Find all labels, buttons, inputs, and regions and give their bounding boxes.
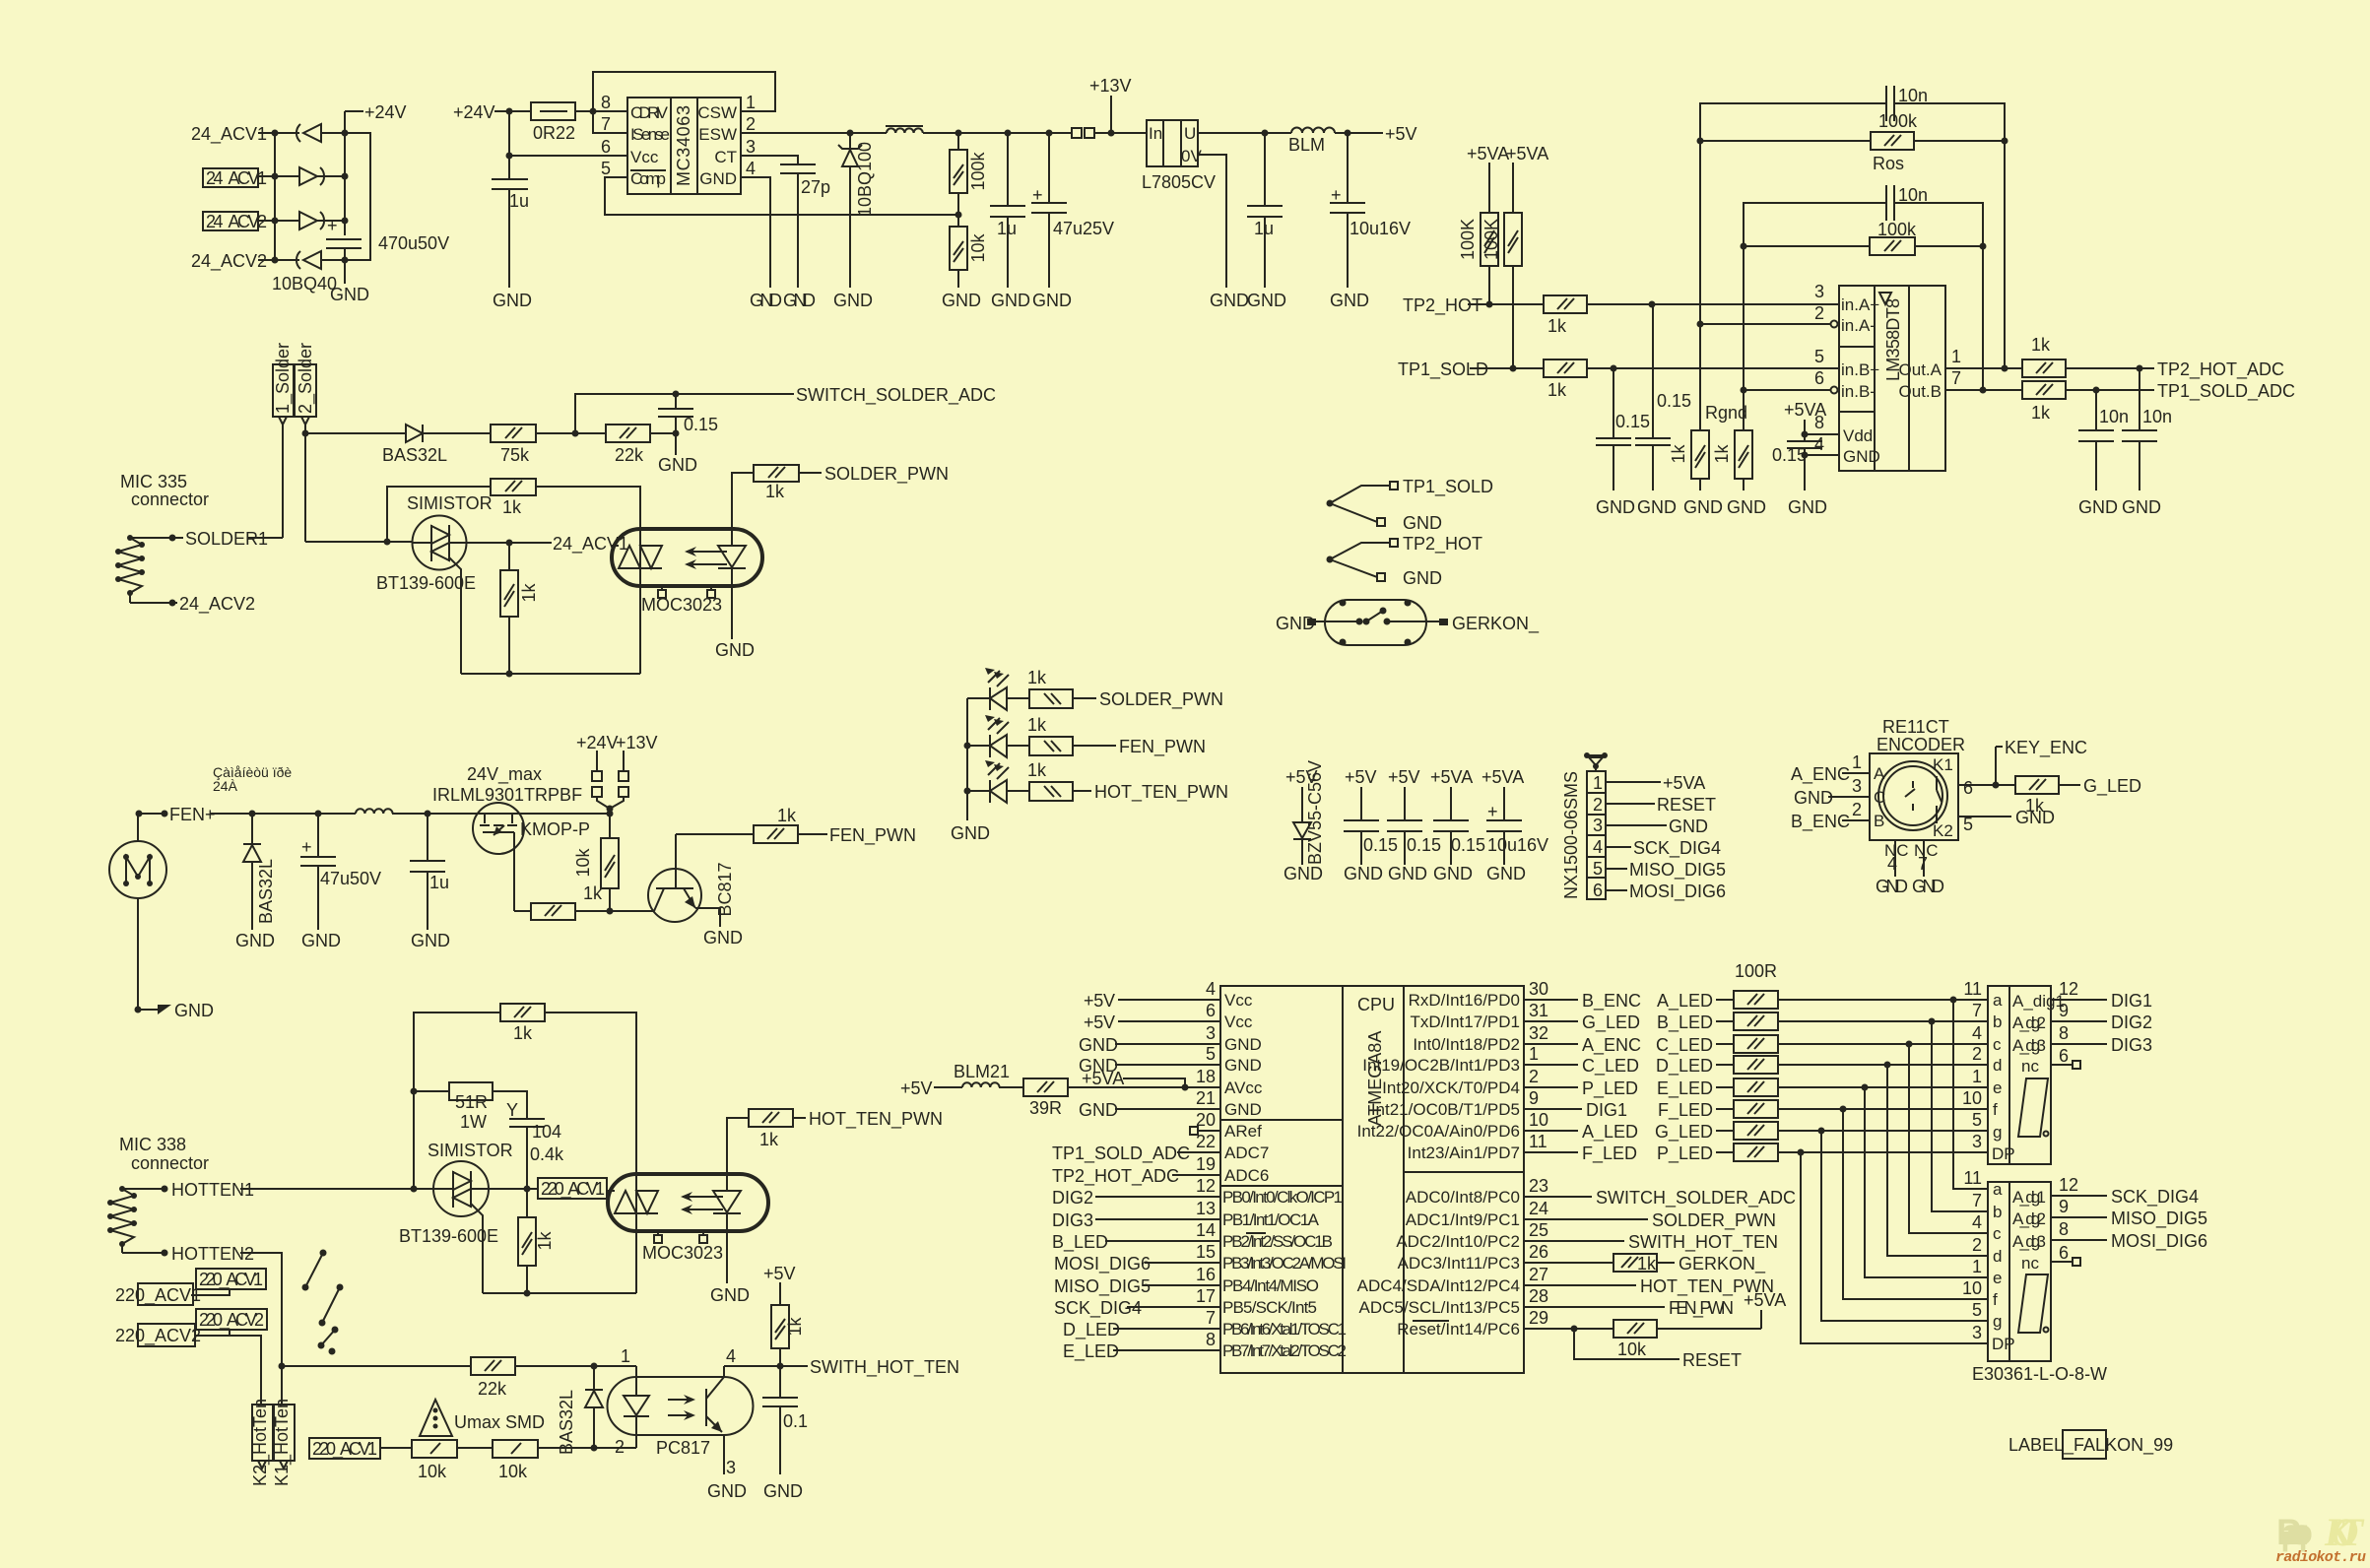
connector marker triangle [1584,752,1608,771]
svg-text:Out.A: Out.A [1899,360,1942,379]
svg-text:PB2/Int2/SS/OC1B: PB2/Int2/SS/OC1B [1222,1232,1333,1251]
svg-text:4: 4 [726,1346,736,1366]
svg-text:+5V: +5V [900,1078,933,1098]
svg-text:GND: GND [1486,864,1526,883]
svg-text:2: 2 [1972,1044,1982,1064]
svg-text:K2: K2 [1933,821,1953,840]
svg-text:4: 4 [1206,979,1216,999]
capacitor 0.15 at in.B+ [1596,368,1650,517]
ground GND motor [135,898,215,1020]
display DSP1 digit pins [2012,979,2152,1011]
svg-text:0.15: 0.15 [1363,835,1398,855]
svg-text:КОТ: КОТ [2324,1510,2365,1554]
svg-text:GND: GND [2122,497,2161,517]
svg-text:+13V: +13V [616,733,658,752]
svg-text:0V: 0V [1181,147,1202,165]
svg-text:AVcc: AVcc [1224,1078,1263,1097]
svg-text:GND: GND [783,291,816,310]
svg-text:1k: 1k [1027,715,1047,735]
capacitor 470u50V [326,216,449,264]
resistor 100R D_LED [1656,1056,1988,1077]
svg-text:GERKON_: GERKON_ [1679,1254,1766,1274]
svg-text:6: 6 [1206,1001,1216,1020]
svg-text:0.15: 0.15 [1615,412,1650,431]
label MOC3023 hot [642,1243,723,1263]
svg-text:104: 104 [532,1122,561,1142]
svg-text:24_ACV2: 24_ACV2 [179,594,255,615]
svg-text:10n: 10n [1898,185,1928,205]
wire pin3 GND [1606,817,1708,836]
svg-text:G_LED: G_LED [2083,776,2141,797]
svg-text:+5VA: +5VA [1744,1290,1786,1310]
testpoint GND stub 2 [1330,559,1442,588]
svg-text:7: 7 [1972,1001,1982,1020]
svg-text:PB3/Int3/OC2A/MOSI: PB3/Int3/OC2A/MOSI [1222,1254,1347,1273]
wire 220_ACV1 label box on triac row [489,1178,607,1200]
transistor Q3 BC817 [648,834,735,922]
resistor 100R B_LED [1657,1013,1988,1033]
capacitor 0.15 solder adc [658,394,718,475]
svg-text:+: + [1487,802,1498,821]
svg-text:1: 1 [746,93,756,112]
svg-text:KEY_ENC: KEY_ENC [2005,738,2087,758]
svg-text:DP: DP [1992,1144,2015,1163]
capacitor 0.15 at Vdd [1772,441,1839,517]
resistor 1k snubber top [414,1004,636,1189]
svg-text:100k: 100k [968,151,988,190]
node TP2_HOT_ADC [2157,359,2284,380]
svg-text:1: 1 [1529,1044,1539,1064]
net label 220_ACV2 upper box [195,1309,267,1336]
note cyrillic garbled text [213,764,292,794]
svg-text:GND: GND [493,291,532,310]
resistor 1k Rgnd A [1669,324,1723,517]
svg-text:+5VA: +5VA [1481,767,1524,787]
svg-text:5: 5 [1206,1044,1216,1064]
svg-text:+5VA: +5VA [1082,1069,1124,1088]
svg-text:TP2_HOT: TP2_HOT [1403,295,1482,316]
wire hot triac gate bottom [483,1231,636,1293]
svg-text:d: d [1993,1247,2002,1266]
svg-text:F_LED: F_LED [1658,1100,1713,1121]
resistor 100R A_LED [1657,991,1988,1012]
svg-text:GND: GND [2015,808,2055,827]
svg-text:BLM: BLM [1288,135,1325,155]
inductor BLM [1288,128,1335,156]
wire triac gate bottom [461,586,640,674]
svg-text:10BQ100: 10BQ100 [855,142,875,217]
svg-text:g: g [1993,1312,2002,1331]
resistor 100R F_LED [1658,1100,1988,1121]
svg-text:TP1_SOLD: TP1_SOLD [1398,359,1488,380]
wire +5V rail [1198,130,1291,137]
svg-text:10k: 10k [573,847,593,877]
node SOLDER1 [130,529,283,549]
svg-text:39R: 39R [1029,1098,1062,1118]
svg-text:100k: 100k [1878,111,1918,131]
svg-text:GND: GND [1224,1100,1262,1119]
svg-text:1k: 1k [502,497,522,517]
svg-text:HOT_TEN_PWN: HOT_TEN_PWN [1094,782,1228,803]
resistor 1k HOT_TEN_PWN [749,1109,943,1149]
svg-text:1: 1 [1852,752,1862,772]
svg-text:f: f [1993,1290,1998,1309]
node 24_ACV2 label row4 [191,251,299,272]
svg-text:10: 10 [1962,1278,1982,1298]
svg-text:0.15: 0.15 [1407,835,1441,855]
svg-text:ADC1/Int9/PC1: ADC1/Int9/PC1 [1406,1210,1520,1229]
svg-text:GND: GND [1669,817,1708,836]
svg-text:6: 6 [2059,1046,2069,1066]
LED indicator common bus [951,698,990,843]
wire G_LED pd1 [1524,1013,1640,1033]
svg-text:U: U [1184,124,1196,143]
svg-text:A_dig1: A_dig1 [2012,1188,2046,1207]
testpoint GND stub 1 [1330,503,1442,533]
LED D hot ten [967,760,1029,803]
resistor 1k pulldown solder gate [500,543,539,678]
wire to pin5 in.B+ [1587,365,1839,372]
svg-text:GND: GND [658,455,697,475]
svg-text:GND: GND [1247,291,1286,310]
resistor 100R E_LED [1657,1078,1988,1099]
svg-text:5: 5 [1972,1300,1982,1320]
svg-text:27: 27 [1529,1265,1548,1284]
power +5VA at Vdd [1784,400,1839,441]
svg-text:PB4/Int4/MISO: PB4/Int4/MISO [1222,1276,1319,1295]
svg-text:TP1_SOLD_ADC: TP1_SOLD_ADC [1052,1143,1190,1164]
label RE11CT ENCODER [1876,717,1965,754]
svg-text:Int0/Int18/PD2: Int0/Int18/PD2 [1413,1035,1520,1054]
svg-text:3: 3 [746,137,756,157]
svg-text:PC817: PC817 [656,1438,710,1458]
zener BZV55-C56V [1284,760,1325,883]
op-amp U1 MC34063 body [627,98,741,194]
resistor 1k pulldown hot gate [518,1189,555,1297]
label Rgnd [1705,403,1747,423]
watermark radiokot [2275,1510,2366,1566]
svg-text:FEN_PWN: FEN_PWN [829,825,916,846]
resistor 10k feedback [942,193,988,310]
svg-text:A_dig2: A_dig2 [2012,1013,2046,1032]
svg-text:GND: GND [1388,864,1427,883]
diode D1 10BQ40 row1 [296,124,345,142]
resistor 100R G_LED [1655,1122,1988,1143]
capacitor Y 104 0.4k [506,1100,564,1193]
label SIMISTOR hot [428,1141,513,1160]
wire Out.B pin7 [1945,387,2022,394]
transistor Q2 IRLML9301 P-MOSFET [473,803,590,911]
wire pin2 RESET [1606,795,1716,815]
svg-text:6: 6 [601,137,611,157]
svg-text:DIG2: DIG2 [2111,1013,2152,1032]
svg-text:LABEL_FALKON_99: LABEL_FALKON_99 [2008,1435,2173,1456]
capacitor 10n at TP1_SOLD_ADC [2078,390,2129,517]
wire F_LED pd7 [1524,1143,1637,1164]
capacitor 1u fan [410,814,450,950]
LED D solder green [967,668,1029,710]
wire A_ENC pin1 [1791,752,1870,785]
optotriac U3 MOC3023 [612,487,762,586]
diode D2 10BQ40 row2 [299,167,345,185]
display DSP2 digit pins [2012,1175,2199,1208]
svg-text:e: e [1993,1269,2002,1287]
svg-text:12: 12 [2059,1175,2078,1195]
svg-text:3: 3 [1593,816,1603,835]
optotriac U4 MOC3023 hot [608,1174,768,1231]
svg-text:GND: GND [710,1285,750,1305]
svg-text:BAS32L: BAS32L [256,859,276,924]
svg-text:Out.B: Out.B [1899,382,1942,401]
svg-text:E_LED: E_LED [1063,1341,1119,1362]
svg-text:220_ACV1: 220_ACV1 [199,1270,263,1290]
svg-text:c: c [1993,1035,2002,1054]
svg-text:5: 5 [1814,347,1824,366]
svg-text:SOLDER_PWN: SOLDER_PWN [1652,1210,1776,1231]
svg-text:Umax SMD: Umax SMD [454,1412,545,1432]
pin numbers MC34063 [601,93,756,178]
svg-text:+5VA: +5VA [1663,773,1705,793]
svg-text:BT139-600E: BT139-600E [376,573,476,593]
wire FEN_PWN pc5 [1524,1290,1786,1329]
wire ESW rail [741,130,887,137]
wire MOC LED cathode to GND [715,586,755,660]
svg-text:K2_HotTen: K2_HotTen [250,1399,271,1486]
svg-text:A_dig2: A_dig2 [2012,1209,2046,1228]
svg-text:GND: GND [235,931,275,950]
svg-text:GND: GND [1637,497,1677,517]
wire PC817 pin4 collector [724,1346,959,1378]
svg-text:1k: 1k [1027,668,1047,687]
svg-text:A: A [1874,764,1885,783]
wire ISense stub [593,111,627,133]
wire 24_ACV1 to MOC [466,534,628,555]
resistor 75k [491,425,606,465]
svg-text:NX1500-06SMS: NX1500-06SMS [1561,771,1581,899]
wire CT pin3 to 27p [741,156,798,164]
svg-text:SOLDER_PWN: SOLDER_PWN [824,464,949,485]
wire SOLDER_PWN pc1 [1524,1210,1776,1231]
node GERKON_ [1439,614,1540,634]
svg-text:19: 19 [1196,1154,1216,1174]
power +24V input [453,102,531,122]
wire feedback loop B top [1744,203,1983,390]
svg-text:47u50V: 47u50V [320,869,381,888]
svg-text:11: 11 [1963,979,1982,999]
capacitor 10u16V bank [1481,767,1548,883]
svg-text:2: 2 [746,114,756,134]
resistor 1k SOLDER_PWN [754,465,822,501]
svg-text:1: 1 [1972,1257,1982,1276]
connector X1 solder pin2 box [295,343,316,542]
ground GND rectifier [330,260,369,304]
wire TP1_SOLD_ADC to ADC7 [1052,1143,1220,1164]
capacitor 10u16V [1330,133,1411,310]
svg-text:9: 9 [2059,1001,2069,1020]
node HOTTEN1 [122,1180,433,1200]
svg-text:BZV55-C56V: BZV55-C56V [1305,760,1325,865]
wire HOT_TEN_PWN pc4 [1524,1276,1774,1297]
svg-text:GND: GND [1079,1100,1118,1120]
svg-text:HOT_TEN_PWN: HOT_TEN_PWN [809,1109,943,1130]
svg-text:PB7/Int7/Xtal2/TOSC2: PB7/Int7/Xtal2/TOSC2 [1222,1341,1347,1360]
svg-text:1u: 1u [997,219,1017,238]
svg-text:1: 1 [1972,1067,1982,1086]
svg-text:Vcc: Vcc [1224,1013,1253,1031]
resistor 1k key [2015,776,2141,816]
svg-text:CT: CT [714,148,737,166]
svg-text:Reset/Int14/PC6: Reset/Int14/PC6 [1397,1320,1520,1339]
inductor fan filter [356,809,393,814]
svg-text:nc: nc [2021,1254,2039,1273]
capacitor 47u50V fan [300,811,381,951]
svg-text:K1: K1 [1933,755,1953,774]
svg-text:17: 17 [1196,1286,1216,1306]
wire Out.A pin1 [1945,365,2022,372]
svg-text:E_LED: E_LED [1657,1078,1713,1099]
svg-text:2: 2 [1972,1235,1982,1255]
svg-text:1k: 1k [1637,1254,1657,1274]
diode D4 10BQ40 row4 [296,251,345,269]
svg-text:0.15: 0.15 [1772,445,1807,465]
connector K2_HotTen [250,1399,273,1486]
svg-text:7: 7 [601,114,611,134]
svg-text:KMOP-P: KMOP-P [520,819,590,839]
label 24V_max IRLML9301TRPBF [432,764,582,805]
svg-text:2_Solder: 2_Solder [296,343,316,414]
svg-text:0.15: 0.15 [1451,835,1485,855]
svg-text:1k: 1k [777,806,797,825]
wire C_LED pd3 [1524,1056,1639,1077]
svg-text:BLM21: BLM21 [954,1062,1010,1081]
cpu right pin numbers [1529,979,1548,1328]
svg-text:1k: 1k [2031,335,2051,355]
svg-text:15: 15 [1196,1242,1216,1262]
svg-text:a: a [1993,1180,2003,1199]
resistor 1k pullup +5V [763,1264,805,1366]
svg-text:4: 4 [1814,434,1824,454]
svg-text:8: 8 [601,93,611,112]
svg-text:C_LED: C_LED [1582,1056,1639,1077]
wire B_ENC pd0 [1524,991,1641,1012]
svg-text:GND: GND [750,291,782,310]
svg-text:220_ACV2: 220_ACV2 [115,1326,201,1346]
heater element zigzag hot [107,1186,137,1253]
wire right bypass of rectifier [345,133,370,260]
svg-text:24À: 24À [213,778,238,794]
power +13V [1089,76,1132,133]
capacitor 0.15 bank2 [1387,767,1441,883]
svg-text:GND: GND [699,169,737,188]
resistor 1k LED fen [1027,715,1206,757]
svg-text:SWITCH_SOLDER_ADC: SWITCH_SOLDER_ADC [1596,1188,1796,1209]
svg-text:31: 31 [1529,1001,1548,1020]
svg-text:A_dig3: A_dig3 [2012,1232,2046,1251]
svg-text:9: 9 [2059,1197,2069,1216]
svg-text:GND: GND [1032,291,1072,310]
svg-text:6: 6 [1963,778,1973,798]
svg-text:GND: GND [703,928,743,947]
resistor 100k feedback [950,133,988,193]
svg-text:ADC2/Int10/PC2: ADC2/Int10/PC2 [1396,1232,1520,1251]
pin ARef square [1190,1127,1220,1135]
svg-text:3: 3 [1972,1132,1982,1151]
svg-text:A_ENC: A_ENC [1791,764,1850,785]
svg-text:b: b [1993,1013,2002,1031]
svg-text:TP2_HOT_ADC: TP2_HOT_ADC [1052,1166,1179,1187]
svg-text:2: 2 [1529,1067,1539,1086]
svg-text:C: C [1874,788,1885,807]
wire +24V output vertical [342,111,364,235]
svg-text:3: 3 [1206,1023,1216,1043]
svg-text:7: 7 [1972,1191,1982,1210]
svg-text:Vdd: Vdd [1843,426,1873,445]
cpu U6 ATMEGA8A body [1220,986,1524,1373]
svg-text:+5V: +5V [763,1264,796,1283]
svg-text:MOC3023: MOC3023 [642,1243,723,1263]
svg-text:A_dig3: A_dig3 [2012,1036,2046,1055]
svg-text:SIMISTOR: SIMISTOR [428,1141,513,1160]
label 100R [1735,961,1777,981]
svg-text:DIG1: DIG1 [1586,1100,1627,1120]
wire TP2_HOT_ADC to ADC6 [1052,1166,1220,1187]
display DSP2 E30361 [1962,1168,2051,1361]
svg-text:Vcc: Vcc [1224,991,1253,1010]
svg-text:220_ACV1: 220_ACV1 [312,1439,377,1460]
svg-text:+5V: +5V [1084,1013,1115,1032]
svg-text:1k: 1k [1027,760,1047,780]
inductor L main [886,126,923,133]
svg-text:MISO_DIG5: MISO_DIG5 [2111,1209,2207,1229]
svg-text:GND: GND [1794,788,1833,808]
svg-text:Vcc: Vcc [630,148,659,166]
wire Comp pin5 to divider [605,177,958,215]
svg-text:1_Solder: 1_Solder [273,343,294,414]
svg-text:24_ACV1: 24_ACV1 [191,124,267,145]
capacitor 27p [780,164,830,310]
ferrite bead jumper squares [1072,128,1147,138]
resistor 1k LED solder [1027,668,1223,710]
svg-text:SOLDER_PWN: SOLDER_PWN [1099,689,1223,710]
svg-text:1u: 1u [1254,219,1274,238]
svg-text:1k: 1k [1547,316,1567,336]
rotary switch contacts glyph [302,1250,344,1355]
svg-text:MIC 335: MIC 335 [120,472,187,491]
wire 0V to GND [1198,155,1249,310]
encoder S1 body [1870,753,1958,840]
svg-text:GND: GND [1344,864,1383,883]
svg-text:24_ACV2: 24_ACV2 [206,212,267,232]
svg-text:+5VA: +5VA [1430,767,1473,787]
wire MISO_DIG5 [1054,1276,1220,1297]
label LABEL_FALKON_99 [2008,1430,2173,1459]
svg-text:GND: GND [1403,513,1442,533]
capacitor 10n at TP2_HOT_ADC [2122,368,2172,517]
svg-text:E30361-L-O-8-W: E30361-L-O-8-W [1972,1364,2107,1384]
svg-text:3: 3 [1972,1323,1982,1342]
svg-text:220_ACV1: 220_ACV1 [115,1285,201,1306]
svg-text:29: 29 [1529,1308,1548,1328]
svg-text:GND: GND [411,931,450,950]
svg-text:GND: GND [174,1001,214,1020]
reed contact [1356,608,1440,625]
ground GND left of gerkon [1276,614,1359,633]
reed switch GERKON oval [1325,600,1426,646]
wire Vcc pin6 [506,111,628,179]
svg-text:10: 10 [1529,1110,1548,1130]
svg-text:9: 9 [1529,1088,1539,1108]
svg-text:3: 3 [726,1458,736,1477]
